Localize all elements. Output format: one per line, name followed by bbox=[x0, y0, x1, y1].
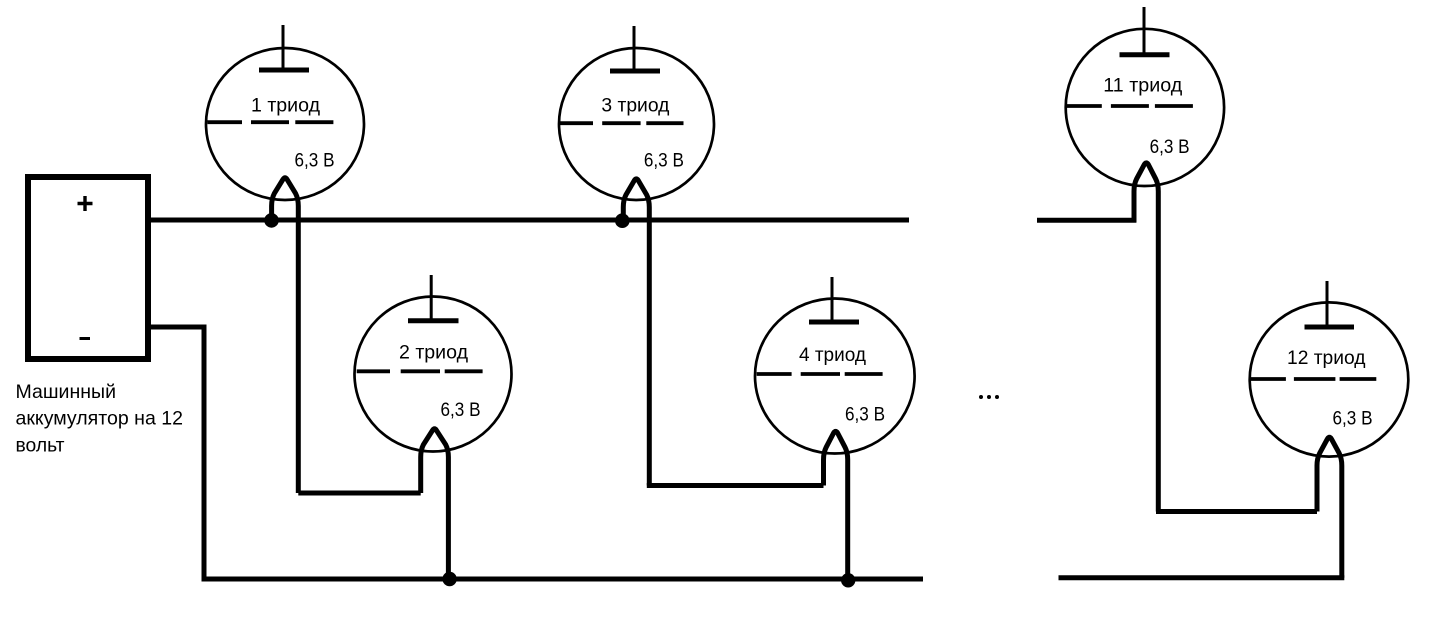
tube V4 grid bbox=[757, 372, 883, 376]
tube V1 anode plate bbox=[259, 68, 309, 73]
node junction dot B (tube2 to bottom bus) bbox=[442, 572, 456, 586]
tube V3 heater filament bbox=[623, 179, 649, 486]
battery B1 bbox=[28, 177, 148, 359]
svg-text:вольт: вольт bbox=[16, 435, 65, 457]
tube V11 anode lead bbox=[1143, 7, 1146, 55]
svg-text:11 триод: 11 триод bbox=[1103, 75, 1183, 97]
svg-text:6,3 В: 6,3 В bbox=[1150, 136, 1190, 158]
tube V4 anode plate bbox=[809, 320, 859, 325]
tube V3 envelope bbox=[559, 48, 714, 200]
svg-text:2 триод: 2 триод bbox=[399, 342, 469, 364]
battery plus terminal label bbox=[78, 196, 93, 211]
tube V12 anode lead bbox=[1326, 281, 1329, 327]
svg-text:6,3 В: 6,3 В bbox=[1333, 408, 1373, 430]
node junction dot D (tube4 to bottom bus) bbox=[841, 573, 855, 587]
wire right top bus bbox=[1037, 218, 1136, 223]
svg-text:3 триод: 3 триод bbox=[601, 95, 670, 117]
tube V2 envelope bbox=[355, 297, 512, 452]
tube V11 grid bbox=[1066, 104, 1193, 108]
wire tube1 to tube2 bbox=[298, 491, 420, 496]
tube V1 heater filament bbox=[272, 178, 299, 493]
tube V3 anode plate bbox=[610, 69, 660, 74]
node junction dot C (tube3 to plus bus) bbox=[615, 213, 630, 228]
tube V12 heater filament bbox=[1317, 437, 1342, 578]
wire bottom bus bbox=[202, 577, 924, 582]
tube V2 heater filament bbox=[421, 429, 449, 579]
tube V12 envelope bbox=[1250, 302, 1409, 456]
tube V3 grid bbox=[559, 121, 684, 125]
wire minus lead bbox=[148, 327, 204, 579]
wire tube11 to tube12 bbox=[1156, 509, 1317, 514]
svg-text:12 триод: 12 триод bbox=[1287, 347, 1366, 369]
svg-text:6,3 В: 6,3 В bbox=[295, 150, 335, 172]
tube V2 grid bbox=[357, 369, 483, 373]
tube V1 anode lead bbox=[282, 25, 285, 70]
wire tube3 to tube4 bbox=[647, 483, 824, 488]
battery text label bbox=[16, 381, 184, 457]
tube V11 heater filament bbox=[1134, 163, 1158, 512]
svg-text:6,3 В: 6,3 В bbox=[441, 399, 481, 421]
tube V3 anode lead bbox=[633, 26, 636, 71]
tube V4 envelope bbox=[755, 299, 915, 454]
tube V1 envelope bbox=[206, 48, 364, 200]
ellipsis continuation dots bbox=[979, 395, 999, 399]
tube V12 anode plate bbox=[1305, 325, 1355, 330]
svg-text:6,3 В: 6,3 В bbox=[845, 404, 885, 426]
tube V2 anode plate bbox=[408, 318, 459, 323]
wire right bottom bus bbox=[1059, 575, 1345, 580]
tube V11 envelope bbox=[1066, 29, 1224, 186]
tube V1 grid bbox=[208, 120, 334, 124]
svg-text:Машинный: Машинный bbox=[16, 381, 117, 403]
tube V12 grid bbox=[1250, 377, 1376, 381]
svg-text:1 триод: 1 триод bbox=[251, 95, 321, 117]
tube V11 anode plate bbox=[1120, 52, 1170, 57]
svg-text:6,3 В: 6,3 В bbox=[644, 150, 684, 172]
battery minus terminal label bbox=[80, 337, 91, 340]
node junction dot A (tube1 to plus bus) bbox=[264, 213, 279, 228]
svg-text:4 триод: 4 триод bbox=[799, 344, 867, 366]
tube V4 heater filament bbox=[824, 431, 848, 580]
wire plus bus top bbox=[148, 218, 909, 223]
svg-text:аккумулятор на 12: аккумулятор на 12 bbox=[16, 408, 184, 430]
tube V4 anode lead bbox=[831, 277, 834, 322]
tube V2 anode lead bbox=[430, 275, 433, 321]
